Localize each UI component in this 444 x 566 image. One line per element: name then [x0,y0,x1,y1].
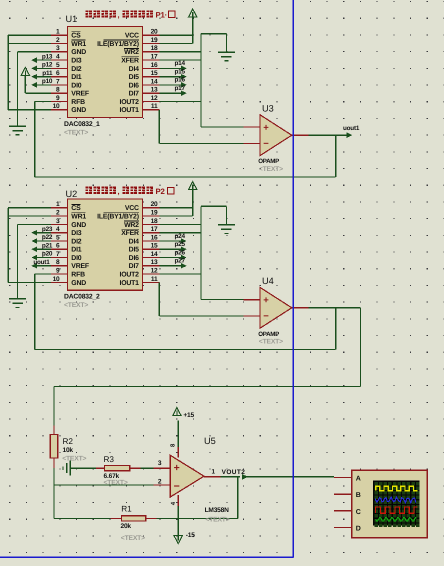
svg-text:19: 19 [151,210,158,217]
red square waveform channel C [376,507,418,513]
net arrow uout1 right [347,134,350,136]
svg-text:D: D [356,525,361,532]
svg-text:DI5: DI5 [129,74,139,81]
svg-text:DI2: DI2 [71,66,81,73]
svg-text:10k: 10k [63,447,74,454]
svg-text:14: 14 [151,251,158,258]
wire U1 pin3 GND to ground [18,51,51,53]
wire U4 output to summer [309,307,361,309]
wire U1 pin2 WR1 [8,43,51,45]
svg-text:XFER: XFER [121,230,139,237]
svg-text:3: 3 [56,45,60,52]
svg-text:9: 9 [56,95,60,102]
feedback wire U4 output to U2 RFB [35,349,336,351]
svg-text:<TEXT>: <TEXT> [64,130,88,137]
svg-text:DI7: DI7 [129,263,139,270]
svg-text:WR2: WR2 [124,49,139,56]
op-amp U5 body [170,455,204,497]
wire power arrow to U1 pin8 VREF [25,92,51,94]
svg-text:<TEXT>: <TEXT> [259,338,283,345]
net arrow p23 at U2 pin4 [35,232,51,234]
U1 right pin stubs 20-11 [143,34,160,36]
svg-text:OPAMP: OPAMP [258,158,279,165]
net arrow p11 at U1 pin6 [35,76,51,78]
wire U5 output to oscilloscope [221,476,240,478]
svg-text:16: 16 [151,62,158,69]
svg-text:3: 3 [56,218,60,225]
oscilloscope input stub B [334,493,352,495]
svg-text:B: B [356,492,361,499]
svg-text:U3: U3 [262,103,274,113]
wire U1 pin1 CS to left bus [8,34,51,36]
net arrow p22 at U2 pin5 [35,240,51,242]
svg-text:2: 2 [158,479,162,486]
svg-text:p27: p27 [174,258,185,265]
power arrow for U1 VCC [189,9,197,17]
svg-text:+: + [263,123,269,134]
green sine waveform channel D [376,518,417,521]
svg-text:DI0: DI0 [71,255,81,262]
net arrow p21 at U2 pin6 [35,248,51,250]
net arrow p15 at U1 pin15 [159,76,183,78]
svg-text:DI3: DI3 [71,58,81,65]
svg-text:1: 1 [56,201,60,208]
wire U2 pin1 CS to left bus [8,207,51,209]
svg-text:p23: p23 [42,226,53,233]
svg-text:-15: -15 [186,532,195,539]
svg-text:4: 4 [56,226,60,233]
svg-text:DAC0832_1: DAC0832_1 [64,121,100,128]
wire U2 pin3 GND to ground [18,223,51,225]
wire ground bus to U3 + input [201,126,243,128]
svg-text:uout1: uout1 [343,125,360,132]
svg-text:VCC: VCC [125,33,139,40]
svg-text:<TEXT>: <TEXT> [121,535,145,542]
wire U1 pin9 RFB feedback [35,101,51,103]
svg-text:1: 1 [56,29,60,36]
svg-text:2: 2 [56,37,60,44]
svg-text:6: 6 [56,243,60,250]
svg-text:18: 18 [151,45,158,52]
svg-text:DI2: DI2 [71,238,81,245]
svg-text:5: 5 [56,62,60,69]
feedback wire U3 output to U1 RFB [35,176,336,178]
resistor R2 [53,426,55,435]
svg-text:ILE(BY1/BY2): ILE(BY1/BY2) [97,41,139,48]
blue sheet border vertical [292,0,294,557]
svg-text:8: 8 [56,259,60,266]
wire ground bus vertical x=201 U2 [200,206,202,299]
svg-text:R3: R3 [104,455,115,464]
svg-text:U1: U1 [66,14,78,24]
wire U3 output to uout1 [309,134,349,136]
svg-text:+15: +15 [183,412,194,419]
svg-text:p16: p16 [174,77,185,84]
svg-text:DI6: DI6 [129,82,139,89]
U5 negative supply pin 4 [177,495,179,506]
svg-text:2: 2 [56,210,60,217]
svg-text:IOUT2: IOUT2 [120,272,140,279]
svg-text:WR1: WR1 [71,214,86,221]
wire R3 to U5 + input [141,467,154,469]
ground symbol right of U2 [218,224,235,226]
svg-text:R2: R2 [63,437,74,446]
svg-text:19: 19 [151,37,158,44]
svg-text:10: 10 [53,276,60,283]
blue noisy waveform channel B [376,497,416,503]
net arrow p17 at U1 pin13 [159,92,183,94]
svg-text:7: 7 [56,251,60,258]
net arrow p27 at U2 pin13 [159,265,183,267]
net arrow p20 at U2 pin7 [35,257,51,259]
oscilloscope input stub A [334,477,352,479]
resistor R1 [111,517,122,519]
svg-text:+: + [174,462,180,474]
U4 output stub [292,307,309,309]
wire U2 pin12 IOUT2 to ground bus [159,273,201,275]
wire U1 pin17 XFER to ground bus [159,59,201,61]
svg-text:p21: p21 [42,242,53,249]
svg-text:6: 6 [56,70,60,77]
svg-text:GND: GND [71,107,86,114]
svg-text:RFB: RFB [71,272,85,279]
wire U2 pin9 RFB feedback [35,273,51,275]
svg-text:p10: p10 [42,78,53,85]
svg-text:12: 12 [151,268,158,275]
wire U1 pin12 IOUT2 to ground bus [159,101,201,103]
net arrow uout1 at U2 pin8 VREF [35,265,51,267]
wire U2 pin10 GND bottom [8,281,51,283]
oscilloscope input stub C [334,510,352,512]
svg-text:13: 13 [151,259,158,266]
wire U1 pin11 IOUT1 to U3 - input [158,110,160,144]
U3 input stubs [243,126,260,128]
svg-text:15: 15 [151,70,158,77]
U2 right pin stubs 20-11 [143,207,160,209]
svg-text:IOUT1: IOUT1 [120,280,140,287]
svg-text:10: 10 [53,103,60,110]
U5 inverting input stub pin 2 [154,484,171,486]
svg-text:LM358N: LM358N [205,507,230,514]
svg-text:A: A [356,476,361,483]
svg-text:9: 9 [56,268,60,275]
net arrow p13 at U1 pin4 [35,59,51,61]
svg-text:XFER: XFER [121,58,139,65]
wire ground bus vertical x=201 U1 [200,34,202,127]
ground symbol below U2 left [9,298,26,300]
svg-text:DI3: DI3 [71,230,81,237]
svg-text:<TEXT>: <TEXT> [62,456,86,463]
U5 output stub pin 1 [204,476,221,478]
oscilloscope body [352,470,427,537]
svg-text:DI1: DI1 [71,74,81,81]
svg-text:ILE(BY1/BY2): ILE(BY1/BY2) [97,214,139,221]
svg-text:14: 14 [151,78,158,85]
U3 output stub [292,134,309,136]
svg-text:7: 7 [56,78,60,85]
svg-text:20k: 20k [121,523,132,530]
svg-text:<TEXT>: <TEXT> [104,480,128,487]
net arrow p24 at U2 pin16 [159,240,183,242]
power arrow -15 [174,536,182,544]
red annotation text for U2: waveform control, data from P2 port [86,187,92,194]
svg-text:VREF: VREF [71,91,89,98]
svg-text:CS: CS [71,205,81,212]
svg-text:p13: p13 [42,53,53,60]
svg-text:p20: p20 [42,251,53,258]
oscilloscope input stub D [334,526,352,528]
svg-text:p15: p15 [174,69,185,76]
svg-text:p17: p17 [174,85,185,92]
wire U1 pin20 VCC to power [159,34,192,36]
svg-text:DI4: DI4 [129,238,139,245]
svg-text:RFB: RFB [71,99,85,106]
svg-text:GND: GND [71,222,86,229]
svg-text:DI5: DI5 [129,247,139,254]
U4 input stubs [243,299,260,301]
svg-text:−: − [263,311,269,322]
net arrow p25 at U2 pin15 [159,248,183,250]
op-amp U3 body [260,115,292,156]
svg-text:VREF: VREF [71,263,89,270]
oscilloscope screen [373,481,419,526]
wire U1 pin19 ILE to power [159,43,192,45]
svg-text:C: C [356,509,361,516]
svg-text:p25: p25 [174,241,185,248]
wire U1 pin10 GND bottom [8,109,51,111]
svg-text:IOUT1: IOUT1 [120,107,140,114]
svg-text:5: 5 [56,234,60,241]
DAC0832 U1 body [68,26,143,117]
U5 positive supply pin 8 [177,447,179,458]
svg-text:WR2: WR2 [124,222,139,229]
resistor R3 [96,467,105,469]
power arrow for U1 VREF [21,67,29,75]
wire vertical left bus x=8.2 [7,35,9,110]
svg-text:DI4: DI4 [129,66,139,73]
wire U2 pin2 WR1 [8,215,51,217]
svg-text:p26: p26 [174,249,185,256]
svg-text:20: 20 [151,29,158,36]
svg-text:13: 13 [151,87,158,94]
svg-text:IOUT2: IOUT2 [120,99,140,106]
net arrow p12 at U1 pin5 [35,67,51,69]
svg-text:DAC0832_2: DAC0832_2 [64,294,100,301]
svg-text:DI0: DI0 [71,82,81,89]
svg-text:CS: CS [71,33,81,40]
svg-text:p22: p22 [42,234,53,241]
U2 left pin stubs 1-10 [51,207,68,209]
svg-text:12: 12 [151,95,158,102]
U1 left pin stubs 1-10 [51,34,68,36]
svg-text:DI6: DI6 [129,255,139,262]
yellow square waveform channel A [376,486,418,490]
wire down to R2 top [53,387,55,426]
svg-text:11: 11 [151,103,158,110]
wire U2 pin20 VCC to power [159,207,192,209]
svg-text:GND: GND [71,280,86,287]
svg-text:uout1: uout1 [33,259,50,266]
red annotation text for U1: waveform control, data from P1 port [86,10,92,17]
wire U1 pin18 WR2 to ground bus [159,51,201,53]
ground symbol below U1 left [9,125,26,127]
net arrow p16 at U1 pin14 [159,84,183,86]
wire R2 bottom to summing node [53,468,55,518]
wire ground bus to U4 + input [201,299,243,301]
wire R1 right to output feedback [157,517,238,519]
svg-text:OPAMP: OPAMP [258,331,279,338]
wire summing node rail to U5 inverting input [54,484,154,486]
ground symbol right of U1 [218,51,235,53]
svg-text:+: + [263,295,269,306]
wire U2 pin17 XFER to ground bus [159,232,201,234]
svg-text:P1·: P1· [156,11,168,20]
power arrow +15 [173,408,181,416]
svg-text:VCC: VCC [125,205,139,212]
svg-text:p11: p11 [42,70,53,77]
svg-text:20: 20 [151,201,158,208]
svg-text:<TEXT>: <TEXT> [259,166,283,173]
svg-text:3: 3 [158,460,162,467]
wire U2 pin18 WR2 to ground bus [159,223,201,225]
net arrow p14 at U1 pin16 [159,67,183,69]
svg-text:17: 17 [151,54,158,61]
svg-text:U2: U2 [66,189,78,199]
svg-text:4: 4 [56,54,60,61]
svg-text:p12: p12 [42,62,53,69]
svg-text:−: − [174,481,180,493]
svg-text:17: 17 [151,226,158,233]
wire vertical left bus U2 [7,208,9,283]
wire U2 pin19 ILE to power [159,215,192,217]
wire U2 pin11 IOUT1 to U4 - input [158,282,160,316]
DAC0832 U2 body [68,199,143,290]
svg-text:8: 8 [56,87,60,94]
wire ground to R3 [70,467,96,469]
svg-text:,: , [118,10,120,19]
net arrow p26 at U2 pin14 [159,257,183,259]
svg-text:VOUT2: VOUT2 [222,469,246,476]
svg-text:DI1: DI1 [71,247,81,254]
svg-text:U4: U4 [262,276,274,286]
power arrow for U2 VCC [189,182,197,190]
svg-text:16: 16 [151,234,158,241]
blue sheet border horizontal [0,556,293,558]
svg-text:P2: P2 [156,187,166,196]
svg-text:R1: R1 [121,505,132,514]
svg-text:<TEXT>: <TEXT> [205,517,229,524]
svg-text:p24: p24 [174,233,185,240]
svg-text:15: 15 [151,243,158,250]
svg-text:<TEXT>: <TEXT> [64,302,88,309]
svg-text:,: , [118,187,120,196]
net arrow p10 at U1 pin7 [35,84,51,86]
svg-text:18: 18 [151,218,158,225]
U5 non-inverting input stub pin 3 [154,467,171,469]
svg-text:DI7: DI7 [129,91,139,98]
op-amp U4 body [260,287,292,328]
wire summing node to R1 left [54,517,111,519]
svg-text:WR1: WR1 [71,41,86,48]
svg-text:p14: p14 [174,60,185,67]
svg-text:11: 11 [151,276,158,283]
svg-text:U5: U5 [204,436,216,446]
svg-text:GND: GND [71,49,86,56]
ground symbol left of R3 [69,461,71,476]
svg-text:−: − [263,139,269,150]
